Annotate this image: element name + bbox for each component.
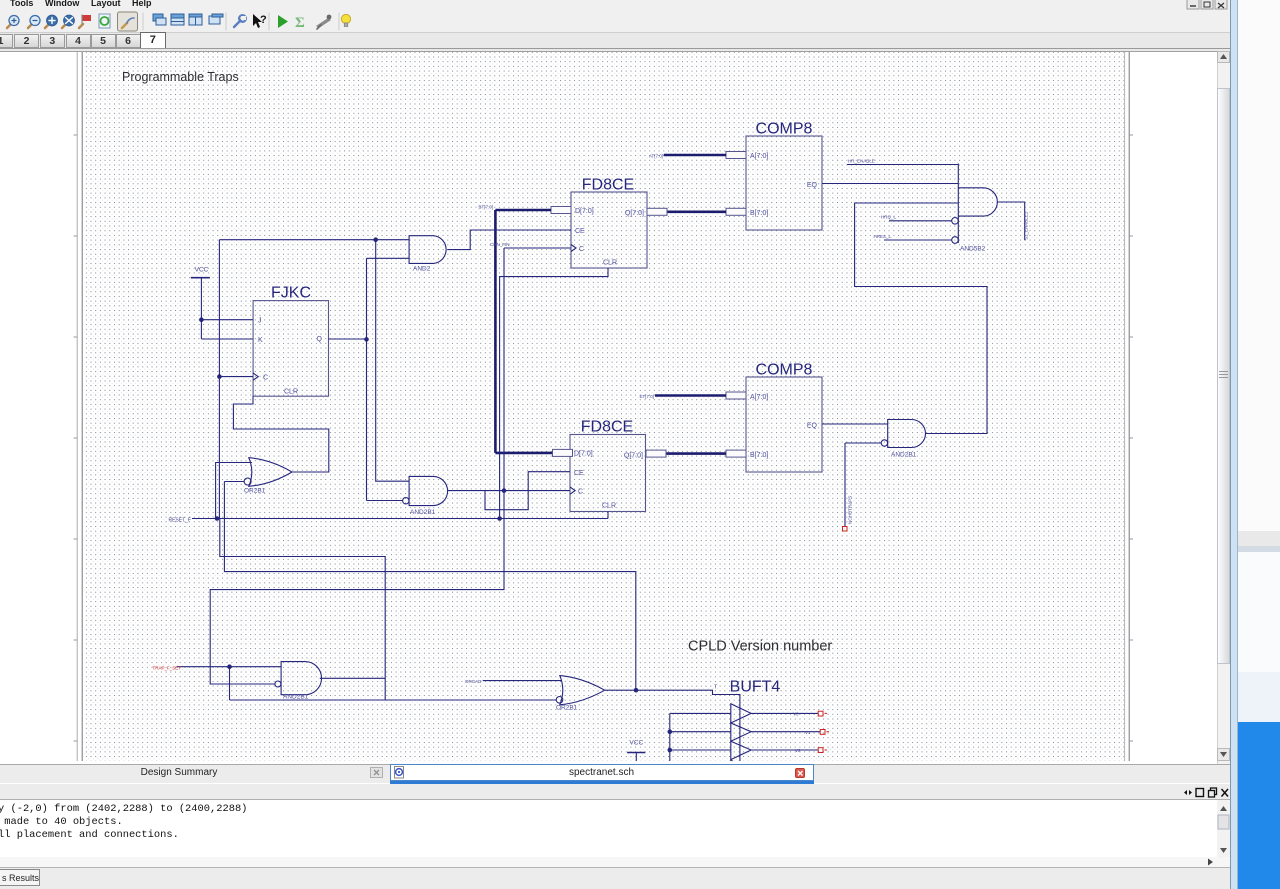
node RESET-CLR1: [497, 516, 502, 521]
svg-text:ET[7:0]: ET[7:0]: [639, 394, 654, 399]
console h scroll row: [0, 857, 1230, 867]
svg-text:CPLD Version number: CPLD Version number: [688, 639, 832, 655]
separator: [338, 13, 340, 30]
bus AT into A1: [664, 154, 726, 157]
wire EQ1 to AND5B2: [822, 183, 958, 185]
close button: [1215, 0, 1227, 9]
bubble OR2B1-1: [244, 478, 251, 485]
active select tool button: [118, 12, 138, 31]
wire to J pin: [201, 319, 253, 321]
comparator U-COMP8-2: [746, 377, 822, 472]
svg-text:Programmable Traps: Programmable Traps: [122, 70, 239, 84]
wire OR2B1-1 out to FJKC CLR: [233, 396, 328, 472]
wire OR2 out to BUFT4 T: [605, 690, 740, 761]
wire dangling NOHRTRAPS: [844, 443, 846, 527]
wire to K pin: [201, 338, 253, 340]
svg-text:K: K: [258, 337, 263, 344]
wire CLR1 drop: [500, 268, 608, 519]
background window strip: [1238, 0, 1280, 531]
svg-text:NOHRTRAPS: NOHRTRAPS: [848, 496, 853, 524]
clock chevron FD8CE-1: [571, 245, 576, 252]
clock chevron FD8CE-2: [570, 487, 575, 494]
design summary tab: [0, 765, 358, 782]
zoom full icon: [45, 15, 57, 28]
svg-text:AND2: AND2: [413, 266, 431, 273]
bus BT into D2: [495, 452, 552, 455]
announce icon: [316, 15, 331, 29]
restore button: [1201, 0, 1213, 9]
canvas vertical scrollbar: [1217, 51, 1230, 765]
bubble AND5B2 in4: [952, 218, 959, 225]
svg-text:HRQ_L: HRQ_L: [881, 215, 897, 220]
bus tap Q1: [647, 208, 667, 215]
console close icon: [1222, 789, 1229, 797]
wire OR1 top input: [216, 463, 252, 519]
svg-text:C: C: [579, 246, 584, 253]
zoom out icon: [28, 16, 40, 29]
svg-text:EQ: EQ: [807, 423, 818, 430]
svg-text:HRES_L: HRES_L: [873, 234, 891, 239]
tile horizontal icon: [171, 14, 184, 25]
open end marker: [843, 527, 848, 532]
svg-text:BT[7:0]: BT[7:0]: [478, 205, 493, 210]
wire C-net vertical: [503, 248, 505, 491]
help arrow icon: [253, 14, 267, 28]
gate AND2B1-3: [281, 662, 321, 695]
wire Q vertical: [366, 258, 368, 500]
spectranet close btn: [795, 768, 806, 779]
bottom document tab bar: [0, 764, 1230, 783]
wire VCC2 stub: [635, 753, 637, 762]
register U-FD8CE-1: [571, 192, 647, 268]
svg-text:C: C: [263, 375, 268, 382]
bus tap B2: [726, 450, 746, 457]
bus tap D1: [551, 207, 571, 214]
wire reset vertical: [218, 240, 220, 519]
zoom selection icon: [79, 15, 91, 28]
wire buf2 out: [751, 731, 820, 733]
wire C1 clock: [504, 247, 571, 249]
svg-text:D[7:0]: D[7:0]: [574, 451, 593, 458]
svg-text:AND2B1: AND2B1: [891, 452, 917, 459]
wire AND2B1-3 out: [320, 677, 385, 679]
node VCC-J junction: [199, 317, 204, 322]
sheet tab row: [0, 33, 1230, 51]
gate AND2B1-2: [409, 476, 447, 505]
wire buf3 in: [670, 749, 731, 751]
open pin buf1: [818, 711, 823, 716]
wire TRAP down: [229, 667, 231, 700]
node AND2 top tap: [373, 237, 378, 242]
node C pin tap: [217, 374, 222, 379]
svg-text:Q[7:0]: Q[7:0]: [625, 210, 644, 217]
svg-text:A[7:0]: A[7:0]: [750, 394, 768, 401]
svg-text:RESET_F: RESET_F: [168, 517, 191, 523]
svg-text:COMP8: COMP8: [756, 121, 813, 138]
tile vertical icon: [189, 14, 202, 25]
svg-text:COMP8: COMP8: [756, 362, 813, 379]
tristate buffer 2: [731, 723, 751, 741]
wire buf1 out: [751, 712, 818, 714]
wire EQ2 to AND2B1-1: [822, 423, 888, 425]
separator: [268, 13, 270, 30]
bus tap A2: [726, 392, 746, 399]
wire AND5B2 in5: [884, 239, 952, 241]
node TRAP junction: [227, 664, 232, 669]
wire Q to AND2B1-2 bubble: [367, 500, 403, 502]
svg-text:VCC: VCC: [195, 267, 209, 274]
svg-text:FJKC: FJKC: [271, 285, 311, 302]
console v scrollbar: [1217, 800, 1230, 857]
wire AND2 out to CE1: [447, 230, 571, 250]
run icon: [278, 15, 288, 28]
bus tap D2: [553, 449, 573, 456]
comparator U-COMP8-1: [746, 136, 822, 230]
wire buf1 in: [670, 712, 731, 714]
flip-flop U-FJKC: [253, 301, 328, 397]
console restore icon: [1211, 788, 1217, 795]
bubble AND2B1-2: [403, 498, 409, 504]
svg-text:FD8CE: FD8CE: [581, 419, 633, 436]
svg-text:CE: CE: [574, 470, 584, 477]
svg-text:V2: V2: [795, 748, 801, 753]
register U-FD8CE-2: [570, 435, 646, 512]
main window right frame: [1230, 0, 1231, 889]
node FJKC Q junction: [364, 337, 369, 342]
tristate buffer 3: [731, 741, 751, 759]
bottom status tabs: [0, 867, 1230, 889]
bus tap B1: [726, 208, 746, 215]
svg-text:A[7:0]: A[7:0]: [750, 153, 768, 160]
svg-text:CLR: CLR: [284, 389, 298, 396]
bubble AND2B1-1: [881, 440, 887, 446]
open pin buf3: [818, 748, 823, 753]
wire buf2 in: [670, 731, 731, 733]
separator: [142, 13, 144, 30]
svg-text:CHN_FIN: CHN_FIN: [490, 242, 510, 247]
sheet left inner border: [81, 52, 83, 761]
svg-text:?: ?: [260, 14, 267, 26]
bus Q2 to B2: [666, 452, 726, 455]
wire AND2B1-2 out to C2: [448, 490, 571, 492]
refresh doc icon: [99, 14, 110, 28]
spectranet tab: [390, 764, 814, 782]
wire AND5B2 in4: [889, 220, 952, 222]
svg-text:V0: V0: [793, 712, 799, 717]
node C2 junction: [502, 488, 507, 493]
gate AND2B1-1: [888, 420, 926, 448]
lightbulb icon: [341, 14, 350, 26]
svg-text:FD8CE: FD8CE: [582, 177, 634, 194]
window cascade icon: [153, 14, 166, 25]
canvas area: [0, 51, 1217, 765]
node buf2 tap: [668, 729, 673, 734]
zoom box icon: [62, 15, 74, 28]
svg-text:AND2B1: AND2B1: [410, 509, 436, 516]
svg-text:V1: V1: [805, 730, 811, 735]
svg-text:CLR: CLR: [603, 260, 617, 267]
wire VCC1 down: [200, 278, 202, 339]
console output: [0, 800, 1217, 857]
minimize button: [1187, 0, 1199, 9]
node OR2 out junction: [634, 688, 639, 693]
svg-text:AT[7:0]: AT[7:0]: [649, 154, 663, 159]
svg-text:VCC: VCC: [629, 739, 643, 746]
wire buf3 out: [751, 749, 818, 751]
spectranet tab icon: [393, 766, 406, 779]
gray strip under tabs: [0, 784, 1230, 801]
wire CE2 zigzag: [485, 472, 570, 510]
svg-text:Q[7:0]: Q[7:0]: [624, 453, 643, 460]
gate AND5B2: [957, 164, 959, 244]
wire TRAP loop: [210, 491, 504, 684]
svg-text:AND5B2: AND5B2: [960, 246, 986, 253]
wire AND2 top input: [219, 239, 409, 241]
wire AND2B1-1 inv input: [845, 442, 881, 444]
zoom in icon: [7, 16, 19, 29]
sheet tabs: [0, 34, 13, 48]
wire AND2 bottom input: [367, 257, 410, 259]
wire ORGAD input: [483, 680, 562, 682]
wire AND5B2 out: [998, 202, 1025, 240]
svg-text:B[7:0]: B[7:0]: [750, 452, 768, 459]
gate AND2: [409, 236, 446, 264]
svg-text:AND2B1: AND2B1: [283, 694, 309, 701]
bubble OR2B1-2: [556, 697, 563, 704]
console detach icon: [1184, 790, 1192, 795]
tristate buffer 1: [731, 704, 751, 723]
bus BT into D1: [495, 209, 551, 212]
wire bottom horizontal to OR2 bubble: [230, 699, 556, 701]
bus Q1 to B1: [667, 211, 726, 214]
wire CLR2 drop: [607, 512, 609, 519]
gate OR2B1-1: [249, 458, 292, 487]
separator: [225, 13, 227, 30]
node RESET-OR1: [215, 516, 220, 521]
wire RESET_F: [192, 518, 608, 520]
bubble AND2B1-3: [275, 681, 281, 687]
wire HR_ENABLE: [847, 164, 958, 166]
svg-text:TRAP_F_SET: TRAP_F_SET: [153, 665, 182, 670]
sheet right outer border: [1128, 52, 1130, 761]
svg-text:S1_ENABLE1: S1_ENABLE1: [1024, 211, 1029, 240]
svg-text:B[7:0]: B[7:0]: [750, 210, 768, 217]
svg-text:Σ: Σ: [295, 15, 305, 31]
sheet left outer border: [76, 52, 78, 761]
sheet grid: [86, 52, 1124, 761]
svg-text:OR2B1: OR2B1: [556, 705, 578, 712]
clock chevron FJKC: [253, 373, 258, 380]
svg-text:C: C: [578, 489, 583, 496]
svg-text:OR2B1: OR2B1: [244, 488, 266, 495]
close window icon: [209, 14, 223, 24]
wire netA down right: [220, 519, 385, 701]
wire vertical to AND2B1-2 top: [376, 240, 409, 482]
node buf3 tap: [668, 748, 673, 753]
menu bar: [0, 0, 1230, 10]
tristate buffer 4 partial: [731, 760, 733, 761]
svg-text:ORGAD: ORGAD: [465, 679, 482, 684]
wire OR1 inv input: [224, 481, 243, 483]
svg-text:CLR: CLR: [602, 503, 616, 510]
bus BT vertical: [494, 210, 497, 453]
wire loop AND2B1-1 out to AND5B2 in3: [855, 203, 987, 434]
toolbar: [0, 10, 1230, 33]
design summary close btn: [370, 767, 383, 778]
bus ET into A2: [655, 394, 726, 397]
wire to FJKC C: [219, 376, 253, 378]
gate OR2B1-2: [560, 676, 605, 705]
wire netB OR1inv to OR2out: [224, 482, 635, 691]
svg-text:D[7:0]: D[7:0]: [575, 208, 594, 215]
wire TRAP_F input: [177, 666, 282, 668]
svg-text:EQ: EQ: [807, 182, 818, 189]
svg-text:J: J: [258, 318, 262, 325]
svg-text:Q: Q: [317, 336, 323, 343]
sheet right inner border: [1124, 52, 1126, 761]
svg-text:HR_ENABLE: HR_ENABLE: [848, 159, 875, 164]
wire buffer input rail: [669, 713, 671, 761]
window buttons: [1186, 0, 1230, 10]
svg-text:BUFT4: BUFT4: [730, 679, 781, 696]
open pin buf2: [820, 730, 825, 735]
wire FJKC Q out: [329, 338, 367, 340]
wrench icon: [234, 15, 246, 27]
bus tap Q2: [646, 450, 666, 457]
console maximize icon: [1196, 789, 1204, 797]
bus tap A1: [726, 152, 746, 159]
bubble AND5B2 in5: [952, 237, 959, 244]
svg-text:CE: CE: [575, 228, 585, 235]
